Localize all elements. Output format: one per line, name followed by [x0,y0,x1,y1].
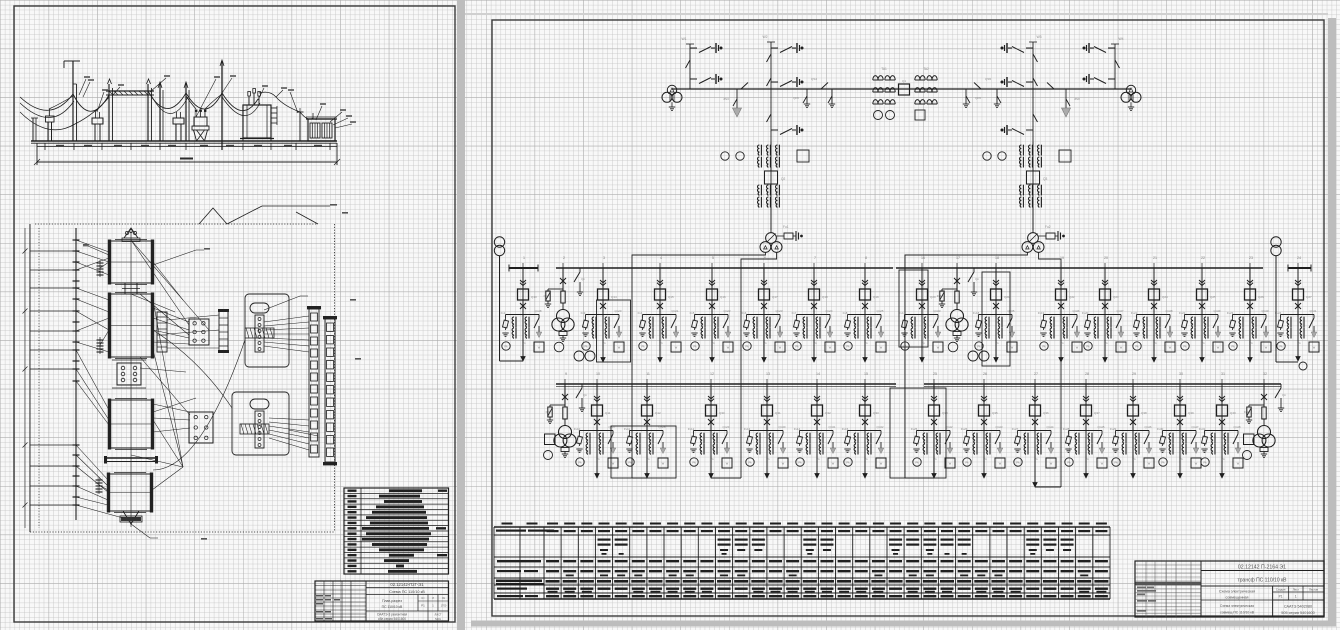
current transformer TA26 [973,433,975,443]
earthing drop Qn15 [965,89,967,104]
svg-text:Qn25: Qn25 [876,309,883,313]
svg-text:PA: PA [1279,346,1282,349]
breaker Q12 [642,405,653,416]
svg-text:12: 12 [710,372,714,376]
wire U-join T2 right lead [1035,486,1061,488]
svg-text:Qn6: Qn6 [793,96,799,100]
earthing switch [1309,318,1314,328]
earthing switch [722,434,727,444]
svg-text:Fv6: Fv6 [742,311,747,315]
svg-text:Q2: Q2 [781,177,785,181]
wire feeder 20 outgoing [1104,315,1106,363]
svg-text:TA2: TA2 [923,67,929,71]
ammeter PA [1159,458,1167,466]
site boundary dotted [35,223,318,225]
transformer branch at x=1033 [983,114,1071,252]
svg-text:Fv8: Fv8 [843,311,848,315]
svg-text:PA: PA [693,346,696,349]
wire feeder 29 drop [1132,384,1134,431]
ground line [31,140,337,142]
svg-text:505 серия 5401600: 505 серия 5401600 [1281,611,1315,615]
breaker Q39 [1175,405,1186,416]
svg-text:Qn: Qn [583,393,587,397]
disconnector QS [1115,60,1120,68]
current transformer TA20 [1094,317,1096,327]
svg-text:PA: PA [1161,462,1164,465]
svg-text:8: 8 [865,256,867,260]
wire [562,268,564,291]
wire feeder 23 outgoing [1249,315,1251,363]
svg-text:Qn33: Qn33 [933,309,940,313]
svg-text:9: 9 [565,372,567,376]
svg-text:23: 23 [1249,256,1253,260]
svg-text:Fu2: Fu2 [1045,225,1051,229]
coupling capacitor [771,81,778,83]
switchgear row 2 [323,316,337,465]
svg-text:Fv20: Fv20 [1082,311,1089,315]
ammeter PA [746,458,754,466]
disconnector QS7 [767,54,772,62]
svg-text:PA: PA [915,462,918,465]
overhead wire spans left [20,94,73,110]
meter Wh [933,342,943,352]
svg-text:Fv27: Fv27 [1012,427,1019,431]
disconnector QS8 [1033,78,1038,86]
wire feeder 31 drop [1221,384,1223,431]
fuse Fv26 [966,434,968,437]
wire feeder 26 drop [983,384,985,431]
current transformer TA14 [806,433,808,443]
conductor fans [153,308,219,432]
bus disconnector QS13 [1047,83,1054,90]
breaker Q3 [1027,171,1040,184]
power transformer T [1028,233,1039,244]
power transformer (elevation) [240,89,300,142]
svg-text:PA: PA [628,462,631,465]
ammeters [721,152,729,160]
breaker Q15 [655,289,666,300]
svg-text:PA: PA [1016,462,1019,465]
coupling capacitor [690,78,697,80]
right sheet frame [492,20,1324,616]
voltage transformer TV2 [557,310,570,323]
svg-text:Fv21: Fv21 [1131,311,1138,315]
current transformer TA24 [1287,317,1289,327]
wire T2 lead right [1039,252,1061,487]
wire feeder 26 outgoing [983,431,985,479]
ammeter PA [844,342,852,350]
wire feeder 28 drop [1085,384,1087,431]
wire feeder 18 outgoing [995,315,997,363]
ammeter PA [502,342,510,350]
voltage transformer TV32 [1258,426,1271,439]
svg-text:Q15: Q15 [668,295,674,299]
meter Wh [775,342,785,352]
svg-text:3: 3 [603,256,605,260]
terminal pole [297,108,314,141]
svg-text:1700: 1700 [441,604,447,608]
voltage transformer cell 9 [544,372,588,460]
earthing switch [995,434,1000,444]
meter PV feeder 24 [1299,362,1307,370]
fuse Fv18 [978,318,980,321]
wire feeder 29 outgoing [1132,431,1134,479]
bus disconnector QS4 [821,83,828,90]
svg-text:Fv28: Fv28 [1063,427,1070,431]
meter Wh [545,434,556,445]
ammeter PA [576,458,584,466]
svg-text:Q14: Q14 [611,295,617,299]
disconnector QS8 [767,78,772,86]
mast pair [158,82,189,141]
wire feeder 13 drop [766,384,768,431]
meter PA [544,451,553,460]
svg-text:Q22: Q22 [1069,295,1075,299]
bus arm [104,456,158,464]
current transformer lower [1020,185,1022,195]
current transformer TA27 [1024,433,1026,443]
svg-text:13: 13 [766,372,770,376]
bus tie current transformer TA1 [873,67,895,104]
meter Wh [1233,458,1243,468]
ammeter PA [844,458,852,466]
cell enclosure feeder 18 [982,272,1010,366]
svg-text:Q39: Q39 [1188,411,1194,415]
svg-text:Qn43: Qn43 [995,425,1002,429]
svg-text:02.12142-П2Г-Э1: 02.12142-П2Г-Э1 [390,582,424,587]
earthing switch [1072,318,1077,328]
support stand [46,109,55,141]
earthing switch [671,318,676,328]
svg-text:7: 7 [814,256,816,260]
wire feeder 14 outgoing [816,431,818,479]
svg-text:Qn18: Qn18 [534,309,541,313]
current transformer TA3 [592,317,594,327]
wire U-join T2 left lead [905,477,934,479]
ammeter PA [963,458,971,466]
svg-text:Fv30: Fv30 [1157,427,1164,431]
svg-text:Fv22: Fv22 [1179,311,1186,315]
10kV bus section 4 [924,383,1281,385]
bus column [73,228,80,520]
wire feeder 22 drop [1201,268,1203,315]
meter Wh [1261,342,1271,352]
svg-text:Q23: Q23 [1113,295,1119,299]
wire feeder 5 drop [711,268,713,315]
feeder 5 [690,256,733,362]
svg-text:ЗS8: ЗS8 [1074,97,1080,101]
ammeter PA [1229,342,1237,350]
svg-text:СААТЭ-3 ремонтная: СААТЭ-3 ремонтная [377,613,407,617]
svg-text:Fv18: Fv18 [973,311,980,315]
disconnector QS7 [1033,54,1038,62]
svg-text:Р1: Р1 [1279,595,1283,599]
incoming line W2 [762,35,803,230]
svg-text:27: 27 [1034,372,1038,376]
fuse Fv10 [579,434,581,437]
wire feeder 1 drop [522,268,524,315]
cable ladder 2 [218,309,229,353]
fence line [29,224,31,532]
earthing switch [1046,434,1051,444]
svg-text:Fv16: Fv16 [899,311,906,315]
left sheet frame [14,6,455,622]
switchgear row 1 [307,306,321,457]
svg-text:Лист: Лист [1293,588,1300,592]
wire feeder 15 drop [864,384,866,431]
wire feeder 25 drop [933,384,935,431]
line trap [690,47,697,49]
power transformer T [766,233,777,244]
svg-text:Qn41: Qn41 [1309,309,1316,313]
svg-text:Fv31: Fv31 [1199,427,1206,431]
svg-text:1: 1 [523,256,525,260]
svg-text:PA: PA [1183,346,1186,349]
wire feeder 10 drop [596,384,598,431]
svg-text:Qn39: Qn39 [1213,309,1220,313]
wire feeder 30 drop [1179,384,1181,431]
breaker Q24 [1149,289,1160,300]
ammeters [983,152,991,160]
svg-text:Q26: Q26 [1258,295,1264,299]
svg-text:Q25: Q25 [1210,295,1216,299]
svg-text:Q35: Q35 [992,411,998,415]
current transformer TA6 [753,317,755,327]
bolt plate A [189,319,209,345]
breaker Q23 [1100,289,1111,300]
svg-text:Qn31: Qn31 [828,425,835,429]
meter Wh [671,342,681,352]
ammeter PA [1181,342,1189,350]
fuse Fv29 [1115,434,1117,437]
wire feeder 11 outgoing [646,431,648,479]
bus disconnector QS3 [741,83,748,90]
breaker Q35 [979,405,990,416]
ammeter PA [975,342,983,350]
fuse Fv30 [1162,434,1164,437]
svg-text:PA: PA [846,346,849,349]
wire feeder 23 drop [1249,268,1251,315]
ammeter PA [691,342,699,350]
earthing switch [825,318,830,328]
wire feeder 5 outgoing [711,315,713,363]
fuse Fv16 [904,318,906,321]
svg-text:PA: PA [504,346,507,349]
meter Wh [1191,458,1201,468]
ammeter PA [1201,458,1209,466]
earthing switch [1165,318,1170,328]
svg-text:Q13: Q13 [531,295,537,299]
svg-text:PA: PA [1203,462,1206,465]
wire feeder 6 drop [763,268,765,315]
svg-text:PA: PA [745,346,748,349]
portal gantry [106,79,154,141]
svg-text:Fv3: Fv3 [581,311,586,315]
meter Wh [1097,458,1107,468]
meter Wh [722,458,732,468]
wire feeder 27 drop [1034,384,1036,431]
breaker Q38 [1128,405,1139,416]
meter Wh [995,458,1005,468]
enclosure 1 [245,294,289,367]
svg-text:Q21: Q21 [1004,295,1010,299]
svg-text:Fv25: Fv25 [911,427,918,431]
svg-text:Q16: Q16 [720,295,726,299]
svg-text:ЛИСТ: ЛИСТ [435,613,442,617]
meter PA [1243,451,1252,460]
feeder 14 [794,372,838,478]
coupling capacitor [1026,129,1033,131]
svg-text:Fv1: Fv1 [501,311,506,315]
breaker Q21 [991,289,1002,300]
feeder 11 [611,372,676,478]
feeder 21 [1131,256,1175,362]
meter Wh [1072,342,1082,352]
feeder 29 [1110,372,1154,478]
svg-text:Q37: Q37 [1094,411,1100,415]
ammeter PA [901,342,909,350]
svg-text:Q1: Q1 [902,79,906,83]
svg-text:Fv19: Fv19 [1038,311,1045,315]
svg-text:Fv29: Fv29 [1110,427,1117,431]
wire feeder 31 outgoing [1221,431,1223,479]
bolt joint plate [112,360,146,388]
ammeter PA [1065,458,1073,466]
svg-text:PA: PA [1067,462,1070,465]
svg-text:PA: PA [1042,346,1045,349]
svg-text:W4: W4 [1118,37,1123,41]
110kV bus [672,88,1131,90]
enclosure 2 [232,392,289,455]
incoming line W4 [1083,37,1124,89]
wire feeder 4 drop [659,268,661,315]
ammeter PA [913,458,921,466]
current transformer TA4 [649,317,651,327]
svg-text:Fv24: Fv24 [1275,311,1282,315]
current transformer TA16 [911,317,913,327]
breaker Q20 [917,289,928,300]
svg-text:Q24: Q24 [1162,295,1168,299]
fuse [563,407,567,419]
svg-text:Q18: Q18 [822,295,828,299]
svg-text:32: 32 [1263,372,1267,376]
current transformer TA11 [636,433,638,443]
svg-text:Fv12: Fv12 [688,427,695,431]
wire [1263,384,1265,407]
earthing switch [778,434,783,444]
svg-text:5401: 5401 [435,617,441,621]
earthing switch [933,318,938,328]
breaker Q26 [1245,289,1256,300]
feeder 7 [792,256,835,362]
ammeter PA [582,342,590,350]
wire feeder 25 outgoing [933,431,935,479]
svg-text:Fv7: Fv7 [792,311,797,315]
meter Wh [915,110,925,120]
bottom funnel [120,511,142,524]
svg-text:Q32: Q32 [825,411,831,415]
ammeter PA [1112,458,1120,466]
feeder 30 [1157,372,1201,478]
bus potential transformer [662,85,682,110]
svg-text:Qn32: Qn32 [876,425,883,429]
fuse Fv3 [585,318,587,321]
transformer barrel 2 [108,293,154,359]
wire feeder 16 drop [921,268,923,315]
wire feeder 7 outgoing [813,315,815,363]
bus stub feeder 24 [1288,267,1311,269]
feeder 3 [581,256,631,362]
meter Wh [876,458,886,468]
svg-text:Q20: Q20 [930,295,936,299]
feeder 4 [638,256,681,362]
svg-text:16: 16 [921,256,925,260]
current transformer TA1 [512,317,514,327]
coupling capacitor [771,129,778,131]
feeder 28 [1063,372,1107,478]
wire feeder 7 drop [813,268,815,315]
right sheet shadow bottom [471,621,1336,627]
meter Wh [1165,342,1175,352]
breaker Q32 [812,405,823,416]
feeder 13 [744,372,788,478]
svg-text:Qn30: Qn30 [778,425,785,429]
earthing switch [723,318,728,328]
current transformer lower [758,185,760,195]
right sheet shadow right [1328,18,1336,626]
svg-text:18: 18 [995,256,999,260]
fuse Fv4 [642,318,644,321]
svg-text:31: 31 [1221,372,1225,376]
meter Wh [608,458,618,468]
meter Wh [1007,342,1017,352]
svg-text:трансф ПС 110/10 кВ: трансф ПС 110/10 кВ [1237,578,1287,584]
fuse [1262,407,1266,419]
svg-text:Qn23: Qn23 [775,309,782,313]
ammeter PA [1133,342,1141,350]
connection diagonals [76,240,209,518]
breaker Q16 [707,289,718,300]
svg-text:TA1: TA1 [881,67,887,71]
cell enclosure feeder 25 [890,388,946,478]
meter Wh [1116,342,1126,352]
ammeter PA [690,458,698,466]
feeder 18 [973,256,1017,366]
earthing switch [1144,434,1149,444]
meters PA PV [574,351,584,361]
earthing switch [1007,318,1012,328]
lightning mast [64,61,80,141]
svg-text:Fv13: Fv13 [744,427,751,431]
svg-text:Qn24: Qn24 [825,309,832,313]
svg-text:W3: W3 [1036,35,1041,39]
svg-text:Qn35: Qn35 [1007,309,1014,313]
current transformer TA18 [985,317,987,327]
svg-text:Qn29: Qn29 [722,425,729,429]
feeder 1 [501,256,544,361]
earthing switch [1233,434,1238,444]
wire feeder 8 outgoing [864,315,866,363]
svg-text:28: 28 [1085,372,1089,376]
wire feeder 11 drop [646,384,648,431]
bus tie breaker Q1 [899,84,910,95]
svg-text:Схема электрическая: Схема электрическая [1220,604,1254,608]
wire feeder 24 outgoing [1297,315,1299,362]
svg-text:02.12142 П-2164 Э1: 02.12142 П-2164 Э1 [1238,564,1286,570]
svg-text:PA: PA [798,462,801,465]
svg-text:Q27: Q27 [1306,295,1312,299]
svg-text:Qn9: Qn9 [975,96,981,100]
